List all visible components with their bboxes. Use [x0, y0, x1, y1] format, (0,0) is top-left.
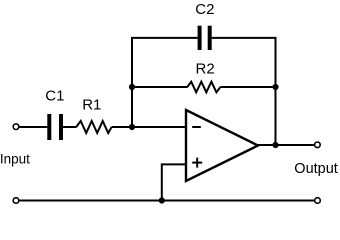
capacitor C2: [198, 26, 212, 50]
wire (right vertical riser, feedback to output node): [275, 37, 277, 145]
node Output (output terminal): [315, 142, 321, 148]
node E (junction of feedback with output): [272, 142, 278, 148]
op-amp: [186, 110, 258, 181]
capacitor C1: [47, 114, 63, 140]
node B (junction of left riser with R2 branch): [129, 84, 135, 90]
node Input (input terminal): [13, 124, 19, 130]
wire (input terminal to C1): [19, 126, 47, 128]
label C2: [195, 1, 214, 18]
node D (junction of riser with bottom rail): [159, 197, 165, 203]
node C (junction of R2 with right vertical): [272, 84, 278, 90]
svg-text:C2: C2: [195, 1, 214, 18]
svg-text:Output: Output: [294, 161, 338, 177]
svg-text:R1: R1: [82, 96, 101, 113]
svg-text:R2: R2: [196, 61, 215, 78]
wire (top left, to C2): [131, 37, 198, 39]
node A (junction of R1, C2/R2 branch, op-amp inverting input): [129, 124, 135, 130]
wire (non-inverting input to riser): [162, 163, 186, 165]
wire (riser from bottom rail to non-inverting input): [161, 163, 163, 200]
label R1: [82, 96, 101, 113]
node common (bottom-left terminal): [13, 198, 19, 204]
wire (left vertical riser, node A up to feedback branches): [131, 38, 133, 127]
wire (R2 to right vertical): [220, 86, 275, 88]
node common return (bottom-right terminal): [315, 198, 321, 204]
resistor R1: [76, 121, 111, 133]
wire (R1 to inverting-input node): [112, 126, 186, 128]
label R2: [196, 61, 215, 78]
wire (output: op-amp apex to output terminal): [258, 144, 314, 146]
wire (bottom common rail): [19, 200, 314, 202]
wire (C1 to R1): [63, 126, 77, 128]
svg-text:Input: Input: [0, 152, 30, 167]
label Input: [0, 152, 30, 167]
wire (C2 to top right corner): [212, 37, 276, 39]
svg-text:C1: C1: [45, 88, 64, 105]
label C1: [45, 88, 64, 105]
wire (R2 row: node B to R2): [132, 86, 188, 88]
label Output: [294, 161, 338, 177]
resistor R2: [187, 82, 220, 93]
